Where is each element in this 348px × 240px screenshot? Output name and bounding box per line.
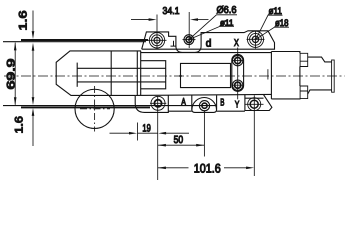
- node valve body right edge: [270, 52, 272, 99]
- dimension 34.1 left arrow: [131, 19, 149, 21]
- node top thin reference line: [3, 41, 146, 43]
- wire Y crosshair: [232, 84, 245, 86]
- node end cap bar: [332, 60, 335, 92]
- node spool dot: [179, 75, 181, 77]
- svg-text:1.6: 1.6: [13, 116, 25, 134]
- dimension 34.1 right arrow: [198, 19, 209, 21]
- wire bottom-left hole crosshair: [150, 102, 166, 104]
- node hole bottom-right tab: [248, 98, 261, 111]
- svg-text:69.9: 69.9: [6, 59, 18, 90]
- wire right plate hole crosshair: [247, 38, 265, 40]
- node coil flange riser: [76, 63, 78, 87]
- node plate hole middle O6.6: [184, 35, 194, 45]
- wire main horizontal centerline: [4, 75, 345, 77]
- node top bump: [300, 53, 308, 66]
- dimension 34.1 extension left: [156, 15, 158, 50]
- node armature ledge rectangle: [141, 61, 166, 89]
- wire middle hole crosshair: [183, 39, 196, 41]
- svg-text:ø18: ø18: [275, 18, 289, 29]
- dimension 19 right arrow: [166, 132, 189, 134]
- wire XY vertical centerline: [237, 48, 239, 100]
- node hole X: [233, 55, 243, 65]
- dimension 69.9 line: [14, 43, 16, 105]
- dimension 50 line: [158, 144, 204, 146]
- node top mounting plate outline: [142, 31, 275, 53]
- node big circle knob: [75, 89, 114, 128]
- wire extension line x254.3: [253, 95, 255, 176]
- dimension 19 line: [138, 132, 158, 134]
- symbol perpendicularity: [171, 41, 177, 46]
- node bottom long thin line through port A: [3, 105, 217, 107]
- node bottom thick surface line: [21, 106, 150, 108]
- node plate hole right O11 O18: [247, 31, 263, 47]
- dimension 19 extension left: [137, 123, 139, 141]
- node coil tube: [77, 68, 166, 82]
- dimension 19 left arrow: [110, 132, 130, 134]
- svg-text:19: 19: [142, 122, 151, 134]
- node coil washer edge: [110, 51, 112, 95]
- leader O6.6: [189, 15, 237, 40]
- wire circle horizontal centerline: [80, 108, 110, 110]
- node coil outline: [56, 51, 141, 96]
- svg-text:A: A: [181, 97, 186, 108]
- wire extension line x204.4: [203, 110, 205, 156]
- svg-text:d: d: [206, 37, 212, 49]
- node hole Y: [233, 80, 243, 90]
- wire bottom-right hole crosshair: [245, 103, 264, 105]
- dimension 1.6 bottom: [32, 116, 34, 146]
- node spool chamber rectangle: [181, 63, 231, 87]
- node valve body bottom edge: [135, 94, 271, 95]
- svg-text:1.6: 1.6: [18, 11, 30, 31]
- svg-text:101.6: 101.6: [194, 161, 221, 175]
- leader o11 right: [256, 15, 283, 39]
- svg-text:50: 50: [174, 134, 184, 146]
- node valve body top edge: [141, 52, 272, 54]
- node bottom right mounting tab: [245, 94, 272, 110]
- wire hidden tick right body: [267, 69, 269, 79]
- svg-text:Ø6.6: Ø6.6: [217, 5, 237, 16]
- dimension 34.1 extension right: [188, 12, 190, 48]
- node plate hole left: [149, 33, 164, 48]
- node hole port A: [199, 101, 209, 111]
- wire right plate hole vertical: [255, 31, 257, 49]
- wire X crosshair: [232, 60, 245, 62]
- svg-text:34.1: 34.1: [163, 6, 180, 17]
- node top thick surface line: [21, 39, 148, 41]
- node bottom left mounting tab: [135, 95, 168, 112]
- node port A boss dome: [192, 95, 217, 112]
- svg-text:ø11: ø11: [220, 17, 234, 27]
- wire shared extension line x157.7: [157, 97, 159, 181]
- svg-text:X: X: [234, 38, 239, 49]
- svg-text:Y: Y: [235, 99, 240, 110]
- node hole bottom-left tab: [151, 96, 165, 110]
- svg-text:ø11: ø11: [268, 6, 282, 17]
- wire strip bottom line between tabs: [168, 110, 245, 112]
- node connector block D: [271, 52, 300, 99]
- node narrow section top: [308, 57, 332, 62]
- svg-text:B: B: [220, 97, 224, 108]
- node bottom bump: [300, 86, 308, 99]
- wire circle vertical centerline: [94, 86, 96, 132]
- dimension 101.6 line: [158, 167, 246, 169]
- node port racetrack X Y: [232, 54, 244, 91]
- node narrow section bottom: [308, 90, 332, 94]
- leader o11 top: [189, 27, 234, 40]
- wire junction verticals: [137, 51, 140, 95]
- leader o18: [256, 27, 289, 39]
- dimension 1.6 top: [32, 11, 34, 98]
- wire left plate hole crosshair: [148, 39, 167, 41]
